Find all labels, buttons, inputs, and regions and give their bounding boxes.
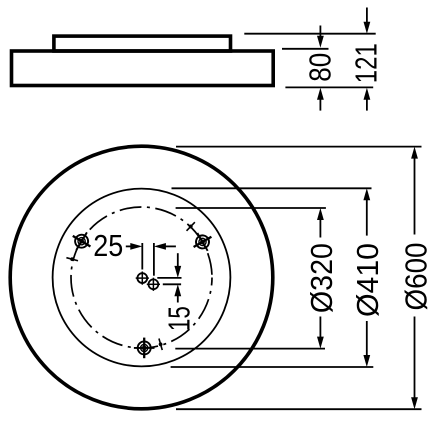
- bolt upper-right: [188, 228, 216, 256]
- leader line diameter 410 bottom tangent: [171, 366, 374, 368]
- label 121: [349, 43, 384, 83]
- plan view: inner circle diameter 410: [53, 189, 231, 367]
- dimension 15 extension stub upper: [157, 277, 181, 279]
- dimension diameter 320 vertical line with arrows: [317, 208, 324, 349]
- bolt circle diameter 320 (dash-dot): [71, 207, 212, 348]
- svg-text:Ø410: Ø410: [350, 243, 385, 317]
- leader line diameter 320 top tangent: [176, 207, 326, 209]
- extension line B (top of base, for 80): [282, 48, 329, 50]
- label diameter 600: [399, 243, 434, 311]
- bolt upper-left: [67, 227, 95, 255]
- dimension 15 top arrow: [174, 253, 181, 278]
- svg-text:15: 15: [162, 306, 197, 331]
- extension line A (top of housing, for 121): [244, 33, 375, 35]
- label diameter 320: [304, 243, 339, 313]
- svg-text:80: 80: [302, 53, 337, 82]
- svg-text:Ø600: Ø600: [399, 243, 434, 311]
- dimension diameter 410 vertical line with arrows: [363, 188, 370, 367]
- dimension 25 left arrow: [126, 243, 143, 250]
- dimension 25 extension line left: [141, 243, 143, 270]
- label diameter 410: [350, 243, 385, 317]
- dimension 121 top arrow: [364, 8, 371, 34]
- tick left on bolt circle: [66, 256, 79, 263]
- dimension 80 top arrow: [317, 26, 324, 48]
- leader line diameter 320 bottom tangent: [175, 348, 325, 350]
- svg-text:Ø320: Ø320: [304, 243, 339, 313]
- tick bottom-right on bolt circle: [157, 338, 164, 351]
- leader line diameter 410 top tangent: [172, 187, 372, 189]
- dimension 25 extension line right: [153, 243, 155, 276]
- label 80: [302, 53, 337, 82]
- plan view: outer circle diameter 600: [10, 146, 273, 409]
- centre point 1 (crosshair): [136, 272, 149, 285]
- label 25: [93, 228, 123, 263]
- dimension 80 bottom arrow: [317, 88, 324, 111]
- dimension 15 extension stub lower: [163, 283, 181, 285]
- dimension diameter 600 vertical line with arrows: [411, 147, 418, 410]
- side view: top housing rect (410mm part): [54, 36, 231, 51]
- side view: base rect (600mm wide body): [12, 51, 274, 86]
- bolt bottom: [134, 338, 155, 359]
- dimension 121 bottom arrow: [364, 88, 371, 111]
- label 15: [162, 306, 197, 331]
- leader line diameter 600 top tangent: [176, 146, 422, 148]
- tick upper-right on bolt circle: [185, 221, 196, 232]
- leader line diameter 600 bottom tangent: [176, 408, 422, 410]
- svg-text:25: 25: [93, 228, 123, 263]
- svg-text:121: 121: [349, 43, 384, 83]
- extension line C (bottom of base, for 80 and 121): [285, 86, 373, 88]
- dimension 15 bottom arrow: [174, 284, 181, 302]
- dimension 25 right arrow: [154, 243, 176, 250]
- centre point 2 (crosshair): [147, 278, 160, 291]
